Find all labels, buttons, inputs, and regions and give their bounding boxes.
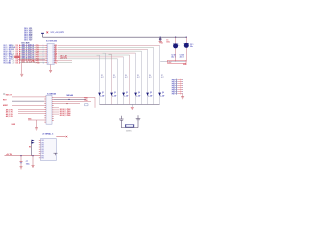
svg-text:RX: RX — [29, 146, 32, 148]
pin 3 CON2 — [176, 83, 177, 84]
wire drop 4 — [141, 51, 143, 104]
wire analog 1 — [18, 111, 44, 113]
wire U1.7 — [20, 56, 46, 58]
wire U1.4 — [20, 50, 46, 52]
svg-text:9 RX: 9 RX — [41, 157, 44, 159]
pin 3 U1 left — [45, 48, 47, 50]
capacitor C3 — [184, 37, 189, 61]
wire U1.10 — [20, 62, 46, 64]
power tap — [54, 153, 58, 155]
svg-text:P18: P18 — [36, 58, 39, 60]
wire gnd stub — [131, 104, 133, 107]
svg-text:547: 547 — [102, 94, 105, 97]
svg-text:p4: p4 — [13, 53, 15, 55]
svg-text:B2: B2 — [9, 62, 11, 64]
pin 17 U2 right — [52, 103, 54, 105]
wire emitter rail — [100, 103, 160, 105]
transistor Q5 — [146, 93, 149, 97]
ground — [20, 74, 23, 76]
svg-text:1 RX: 1 RX — [41, 140, 44, 142]
pin 21 U2 right — [52, 111, 54, 113]
pin 1 U2 left — [44, 96, 46, 98]
svg-text:547: 547 — [150, 94, 153, 97]
wire cap bottoms — [160, 61, 186, 63]
svg-text:SW1_R: SW1_R — [6, 94, 13, 96]
wire spi 1 — [54, 109, 59, 111]
pin 10 U2 left — [44, 115, 46, 117]
pin 11 U1 right — [54, 44, 55, 46]
wire crystal bottom — [121, 127, 138, 129]
capacitor C6 — [136, 115, 141, 127]
junction — [175, 37, 176, 38]
svg-text:GND: GND — [183, 64, 187, 66]
power flag VCC — [41, 33, 44, 37]
pin 4 U1 left — [45, 50, 47, 52]
svg-text:PB1: PB1 — [172, 81, 175, 83]
wire spi 3 — [54, 113, 59, 115]
pin arrow — [178, 89, 182, 90]
svg-text:547: 547 — [162, 94, 165, 97]
pin 9 J1 — [39, 157, 41, 159]
wire RXD — [54, 96, 95, 98]
pin 11 U2 left — [44, 117, 46, 119]
svg-text:MOSI_3 PB5: MOSI_3 PB5 — [60, 115, 71, 117]
svg-text:Q6: Q6 — [162, 92, 164, 94]
svg-text:P12: P12 — [36, 47, 39, 49]
pin 8 J1 — [39, 155, 41, 157]
svg-text:D9_A: D9_A — [16, 61, 21, 64]
pin 15 U1 right — [54, 52, 55, 54]
junction — [160, 37, 161, 38]
no-connect cross J1 — [66, 136, 68, 138]
svg-text:R5: R5 — [137, 75, 139, 77]
wire RST to U2 — [12, 100, 44, 102]
wire bus row 5 — [58, 52, 136, 54]
pin 12 U2 left — [44, 119, 46, 121]
wire U2 gnd — [28, 119, 44, 121]
transistor Q4 — [134, 93, 137, 97]
pin 8 U2 left — [44, 111, 46, 113]
transistor Q6 — [158, 93, 161, 97]
wire U1 gnd drop — [50, 65, 52, 70]
svg-text:547: 547 — [138, 94, 141, 97]
svg-text:R3: R3 — [113, 75, 115, 77]
pin 5 U1 left — [45, 52, 47, 54]
svg-text:C1: C1 — [161, 43, 163, 45]
ground rail 2 — [32, 166, 35, 168]
pin 7 U1 left — [45, 56, 47, 58]
svg-text:PB2: PB2 — [172, 83, 175, 85]
capacitor C1 — [159, 37, 162, 43]
pin 2 U2 left — [44, 98, 46, 100]
svg-text:100n: 100n — [166, 41, 170, 43]
wire drop 3 — [147, 49, 149, 104]
svg-text:Q1: Q1 — [102, 92, 104, 94]
junction — [186, 37, 187, 38]
pin 3 U2 left — [44, 100, 46, 102]
svg-text:22u 1: 22u 1 — [171, 57, 175, 59]
svg-text:DIG_BUS: DIG_BUS — [22, 42, 31, 44]
pin 1 CON2 — [176, 79, 177, 80]
wire U1.8 — [20, 58, 46, 60]
wire analog 2 — [18, 113, 44, 115]
svg-text:C3 1: C3 1 — [190, 44, 193, 46]
junction — [32, 155, 33, 156]
svg-text:R6: R6 — [149, 75, 151, 77]
pin arrow J1.2 — [32, 142, 35, 144]
wire spi 2 — [54, 111, 59, 113]
wire U1.2 — [20, 46, 46, 48]
wire gnd drop 2 — [32, 156, 34, 165]
ground rail label — [131, 107, 134, 109]
pin 16 U2 right — [52, 101, 54, 103]
svg-text:547: 547 — [126, 94, 129, 97]
pin 4 CON2 — [176, 85, 177, 86]
net flag — [85, 104, 89, 106]
pin 13 U1 right — [54, 48, 55, 50]
wire U1.6 — [20, 54, 46, 56]
svg-text:AN_3 IN: AN_3 IN — [6, 115, 14, 118]
pin 19 U2 right — [52, 107, 54, 109]
pin 10 U1 left — [45, 62, 47, 64]
pin arrow — [178, 83, 182, 84]
pin 7 CON2 — [176, 91, 177, 92]
svg-text:GND: GND — [11, 124, 16, 126]
svg-text:P17: P17 — [36, 57, 39, 59]
pin 22 U2 right — [52, 113, 54, 115]
svg-text:547: 547 — [114, 94, 117, 97]
svg-text:p7: p7 — [13, 59, 15, 61]
svg-text:P15: P15 — [36, 53, 39, 55]
wire TXD — [54, 98, 86, 100]
pin 6 J1 — [39, 150, 41, 152]
wire CON2 gnd — [182, 94, 184, 97]
svg-text:4K7: 4K7 — [125, 77, 128, 79]
ground U2 — [35, 128, 38, 130]
svg-text:4K7: 4K7 — [161, 77, 164, 79]
wire drop 9 — [111, 54, 113, 104]
pin 20 U1 right — [54, 62, 55, 64]
pin 7 U2 left — [44, 109, 46, 111]
svg-text:RST: RST — [3, 100, 7, 102]
wire drop 1 — [159, 45, 161, 104]
pin 13 U2 left — [44, 121, 46, 123]
transistor Q3 — [122, 93, 125, 97]
svg-text:22u 1: 22u 1 — [180, 57, 184, 59]
junction — [69, 99, 70, 100]
pin 14 U1 right — [54, 50, 55, 52]
pin 25 U2 right — [52, 119, 54, 121]
svg-text:4K7: 4K7 — [113, 77, 116, 79]
wire bus row 10 — [58, 62, 72, 64]
crystal X1 — [125, 124, 134, 127]
ground C7 — [20, 167, 23, 169]
pin 4 J1 — [39, 146, 41, 148]
pin 18 U1 right — [54, 58, 55, 60]
wire VCC top rail — [43, 36, 187, 38]
junction marker — [32, 60, 34, 62]
svg-text:Q2: Q2 — [114, 92, 116, 94]
pin 6 CON2 — [176, 89, 177, 90]
wire U1.1 — [20, 44, 46, 46]
wire U1.5 — [20, 52, 46, 54]
junction — [20, 155, 21, 156]
transistor Q1 — [98, 93, 101, 97]
svg-text:100u: 100u — [26, 163, 30, 165]
regulator label box — [168, 60, 187, 63]
svg-text:C2 25: C2 25 — [171, 54, 175, 56]
svg-text:+: + — [178, 45, 180, 47]
pin arrow — [178, 85, 182, 86]
pin 2 CON2 — [176, 81, 177, 82]
pin 20 U2 right — [52, 109, 54, 111]
pin 7 J1 — [39, 153, 41, 155]
wire bus row 2 — [58, 46, 154, 48]
svg-text:J1 SERIAL_6: J1 SERIAL_6 — [42, 132, 53, 135]
wire analog 0 — [18, 109, 44, 111]
pin 24 U2 right — [52, 117, 54, 119]
svg-text:R2: R2 — [101, 75, 103, 77]
pin 6 U2 left — [44, 106, 46, 108]
pin 1 J1 — [39, 140, 41, 142]
pin 6 U1 left — [45, 54, 47, 56]
svg-text:p8: p8 — [13, 60, 15, 62]
microcontroller U2 — [46, 95, 52, 124]
shift register U1 — [47, 44, 54, 65]
svg-text:VC: VC — [55, 62, 58, 64]
svg-text:IN_10: IN_10 — [4, 62, 9, 64]
wire drop 5 — [135, 53, 137, 104]
no-connect cross — [46, 32, 48, 34]
svg-text:C1: C1 — [166, 39, 168, 41]
pin 1 U1 left — [45, 44, 47, 46]
svg-text:p6: p6 — [13, 57, 15, 59]
svg-text:16MHz: 16MHz — [126, 131, 132, 133]
svg-text:O7: O7 — [30, 40, 33, 42]
pin 17 U1 right — [54, 56, 55, 58]
svg-text:PB5: PB5 — [172, 89, 175, 91]
pin arrow — [178, 79, 182, 80]
wire bus row 7 — [58, 56, 124, 58]
wire bus row 6 — [58, 54, 130, 56]
wire bus row 9 — [58, 60, 72, 62]
wire J1 aux — [56, 136, 65, 138]
svg-text:4K7: 4K7 — [137, 77, 140, 79]
wire U1.9 — [20, 60, 46, 62]
pin 3 J1 — [39, 144, 41, 146]
svg-text:3 RX: 3 RX — [41, 144, 44, 146]
pin 2 U1 left — [45, 46, 47, 48]
svg-text:6 RX: 6 RX — [41, 151, 44, 153]
pin 5 J1 — [39, 148, 41, 150]
svg-text:+9V IN: +9V IN — [6, 154, 12, 156]
wire XTAL1 — [54, 101, 91, 103]
junction — [67, 103, 68, 104]
pin 15 U2 right — [52, 98, 54, 100]
svg-text:8 RX: 8 RX — [41, 155, 44, 157]
pin 5 U2 left — [44, 104, 46, 106]
wire J1 to power rail — [30, 141, 32, 156]
capacitor C5 — [119, 116, 124, 128]
pin 12 U1 right — [54, 46, 55, 48]
svg-text:4 RX: 4 RX — [41, 147, 44, 149]
wire XTAL2 — [54, 103, 80, 105]
ground — [49, 70, 52, 72]
svg-text:PB7: PB7 — [172, 93, 175, 95]
svg-text:VCC_+5V_EXT1: VCC_+5V_EXT1 — [51, 32, 65, 34]
pin 16 U1 right — [54, 54, 55, 56]
svg-text:Q3: Q3 — [126, 92, 128, 94]
pin 23 U2 right — [52, 115, 54, 117]
svg-text:P110: P110 — [36, 62, 40, 64]
pin 9 U1 left — [45, 60, 47, 62]
capacitor C2 — [173, 37, 178, 61]
wire drop 6 — [129, 55, 131, 104]
pin arrow — [178, 87, 182, 88]
wire U2 gnd drop — [36, 120, 38, 127]
pin 8 U1 left — [45, 58, 47, 60]
switch S1 marker — [3, 93, 5, 95]
label RESET red box — [14, 56, 20, 58]
connector J1 — [41, 139, 57, 161]
wire bus row 4 — [58, 50, 142, 52]
pin 5 CON2 — [176, 87, 177, 88]
pin 14 U2 right — [52, 96, 54, 98]
wire spi 0 — [54, 107, 59, 109]
svg-text:+5V: +5V — [168, 62, 172, 64]
wire to ground net — [18, 59, 46, 61]
wire stub 10 — [103, 52, 106, 54]
transistor Q2 — [110, 93, 113, 97]
wire U1.3 — [20, 48, 46, 50]
svg-text:p3: p3 — [13, 51, 15, 53]
wire bus row 1 — [58, 44, 160, 46]
svg-text:p2: p2 — [13, 49, 15, 51]
pin arrow J1.1 — [32, 140, 35, 142]
pin 9 U2 left — [44, 113, 46, 115]
wire drop 8 — [117, 59, 119, 105]
wire stub drop 11 — [97, 54, 100, 56]
svg-text:2 RX: 2 RX — [41, 142, 44, 144]
pin 19 U1 right — [54, 60, 55, 62]
wire drop 2 — [153, 47, 155, 104]
pin 4 U2 left — [44, 102, 46, 104]
svg-text:R4: R4 — [125, 75, 127, 77]
svg-text:PB3: PB3 — [172, 85, 175, 87]
wire drop 7 — [123, 57, 125, 104]
wire gnd drop — [21, 60, 23, 74]
svg-text:22u: 22u — [190, 46, 193, 48]
svg-text:4K7: 4K7 — [101, 77, 104, 79]
pin arrow — [178, 81, 182, 82]
svg-text:Q5: Q5 — [150, 92, 152, 94]
pin arrow — [178, 93, 182, 94]
svg-text:C3 25: C3 25 — [180, 54, 184, 56]
pin arrow — [178, 91, 182, 92]
wire SW1 to U2 — [12, 96, 44, 98]
pin 2 J1 — [39, 142, 41, 144]
svg-text:PB6: PB6 — [172, 91, 175, 93]
svg-text:P11: P11 — [36, 45, 39, 47]
wire bus row 3 — [58, 48, 148, 50]
svg-text:4K7: 4K7 — [149, 77, 152, 79]
wire RXD drop — [94, 97, 96, 108]
svg-text:5 RX: 5 RX — [41, 149, 44, 151]
svg-text:P16: P16 — [36, 55, 39, 57]
svg-text:7 RX: 7 RX — [41, 153, 44, 155]
svg-text:R7: R7 — [161, 75, 163, 77]
svg-text:IC1 74HC595: IC1 74HC595 — [46, 39, 57, 42]
wire stub 9 — [109, 53, 112, 55]
svg-text:MEGA8: MEGA8 — [67, 94, 73, 97]
svg-text:p9: p9 — [13, 62, 15, 64]
svg-text:Q4: Q4 — [138, 91, 140, 94]
capacitor C7 — [20, 156, 23, 167]
wire bus row 8 — [58, 58, 118, 60]
pin 8 CON2 — [176, 93, 177, 94]
wire drop 10 — [105, 53, 107, 104]
pin 18 U2 right — [52, 105, 54, 107]
svg-text:p5: p5 — [13, 55, 15, 57]
svg-text:P19: P19 — [36, 60, 39, 62]
svg-text:P13: P13 — [36, 49, 39, 51]
wire power rail — [5, 155, 41, 157]
svg-text:AREF: AREF — [3, 104, 9, 107]
wire AREF to U2 — [12, 104, 44, 106]
svg-text:PB0: PB0 — [172, 79, 175, 81]
ground CON2 — [181, 97, 184, 99]
